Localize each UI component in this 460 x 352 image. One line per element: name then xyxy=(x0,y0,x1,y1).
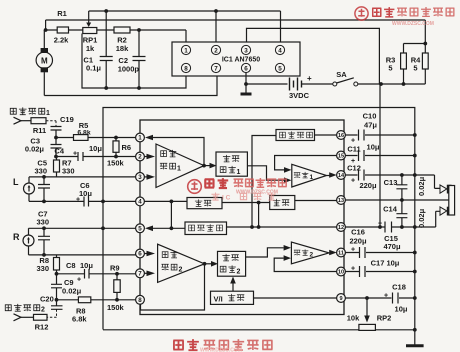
wire filter1 to filter2 xyxy=(222,202,270,204)
capacitor C13 0.02u xyxy=(396,175,407,200)
arrow V/I up into volume2 xyxy=(232,281,234,291)
svg-text:330: 330 xyxy=(36,264,49,273)
svg-text:+: + xyxy=(351,178,355,185)
volume control 2 box xyxy=(218,251,246,276)
capacitor C2 1000p xyxy=(133,30,146,88)
resistor R9 150k xyxy=(116,274,118,300)
vertical pin4-net to pin5 wire xyxy=(170,201,172,228)
resistor R8 330 xyxy=(56,255,58,274)
svg-text:0.02μ: 0.02μ xyxy=(417,176,426,196)
wire volume1 output down to driver1 lower input xyxy=(247,166,284,180)
resistor R6 150k xyxy=(115,138,117,157)
svg-text:C8: C8 xyxy=(66,261,76,270)
svg-text:+: + xyxy=(351,138,355,145)
svg-text:1: 1 xyxy=(237,169,241,176)
svg-text:7: 7 xyxy=(214,66,218,73)
svg-text:470μ: 470μ xyxy=(383,242,401,251)
wire L row bottom / C6 to pin4 xyxy=(29,200,136,202)
wire top rail y=11 (RP1 wiper to C1, pin2, pin4 of IC1) xyxy=(89,11,281,43)
input signal 1 label xyxy=(10,107,45,114)
ground under IC1 pin6 xyxy=(245,73,247,94)
pin 10 of AN7650 block xyxy=(337,267,346,276)
svg-text:+: + xyxy=(76,197,80,204)
wire preamp1 out to volume1 with arrow xyxy=(204,165,210,167)
capacitor C9 0.02u xyxy=(51,274,62,300)
svg-text:10μ: 10μ xyxy=(79,189,92,198)
svg-text:3VDC: 3VDC xyxy=(289,91,310,100)
wire ref box right to pin16 xyxy=(315,134,342,136)
svg-text:R6: R6 xyxy=(122,143,132,152)
svg-text:WWW.DZSC.COM: WWW.DZSC.COM xyxy=(200,348,242,352)
svg-text:9: 9 xyxy=(339,296,342,302)
IC1 pin 8 xyxy=(181,63,190,72)
svg-text:1k: 1k xyxy=(86,44,95,53)
IC1 AN7650 box xyxy=(172,42,300,76)
capacitor C11 10u on pin15 row xyxy=(345,150,414,161)
wire volume2 output up to driver2 upper input xyxy=(246,248,284,257)
resistor R2 18k xyxy=(114,27,130,33)
pin 16 of AN7650 block xyxy=(337,131,346,140)
driver2 output arrow to pin11 xyxy=(329,250,337,256)
capacitor C6 10u xyxy=(84,197,89,207)
capacitor C18 10u on pin9 row xyxy=(345,293,414,304)
svg-text:+: + xyxy=(307,74,312,83)
svg-text:2: 2 xyxy=(138,154,142,161)
svg-text:0.02μ: 0.02μ xyxy=(62,287,82,296)
svg-text:150k: 150k xyxy=(107,159,125,168)
svg-text:1: 1 xyxy=(177,166,181,173)
svg-text:L: L xyxy=(13,177,19,187)
pin 15 of AN7650 block xyxy=(337,151,346,160)
svg-text:330: 330 xyxy=(62,167,75,176)
arrow pin7 into preamp2 xyxy=(147,271,156,277)
battery 3VDC xyxy=(290,78,302,91)
svg-text:2: 2 xyxy=(214,48,218,55)
RP1 wiper arrow xyxy=(86,23,91,28)
svg-text:2: 2 xyxy=(41,307,45,314)
svg-text:C14: C14 xyxy=(383,205,398,214)
svg-text:C17 10μ: C17 10μ xyxy=(371,259,400,268)
svg-text:R9: R9 xyxy=(110,264,120,273)
wire base voltage right to pin 12 xyxy=(227,226,342,228)
svg-text:7: 7 xyxy=(138,271,142,278)
svg-text:+: + xyxy=(77,277,81,284)
svg-text:47μ: 47μ xyxy=(364,121,377,130)
input 1 arrow xyxy=(14,117,22,124)
RP2 arrow from pin9 wire xyxy=(366,298,368,317)
IC1 pin 2 xyxy=(211,45,220,54)
svg-text:C4: C4 xyxy=(54,147,64,156)
svg-text:C18: C18 xyxy=(392,283,406,292)
svg-text:5: 5 xyxy=(388,64,392,73)
svg-text:1: 1 xyxy=(310,174,314,181)
ground bottom right xyxy=(414,341,416,345)
svg-text:C16: C16 xyxy=(351,228,365,237)
pin 2 of AN7650 block xyxy=(136,152,145,161)
resistor R3 5 xyxy=(404,20,426,84)
V/I convert box xyxy=(211,291,254,304)
svg-text:1: 1 xyxy=(46,110,50,117)
capacitor C10 47u on pin16 row xyxy=(345,130,414,141)
wire pin13 row to jack common xyxy=(345,199,448,201)
svg-text:3: 3 xyxy=(138,174,142,181)
preamp 2 triangle xyxy=(158,244,205,282)
svg-text:2: 2 xyxy=(310,252,314,259)
watermark center text WeiKu xyxy=(205,178,229,188)
svg-text:+: + xyxy=(384,293,388,300)
IC1 pin 1 xyxy=(181,45,190,54)
potentiometer RP1 1k xyxy=(83,28,97,34)
pin 7 of AN7650 block xyxy=(136,269,145,278)
svg-text:C20: C20 xyxy=(40,295,54,304)
svg-text:8: 8 xyxy=(138,297,142,304)
junction dots internal xyxy=(170,164,261,266)
svg-text:10μ: 10μ xyxy=(80,261,93,270)
feedback wire preamp1 output to pin 1 xyxy=(152,138,204,166)
wire ref box left down to pin12 net xyxy=(252,136,276,228)
svg-text:+: + xyxy=(351,247,355,254)
wire V+ rail x=380 down to C15 xyxy=(379,84,381,227)
svg-text:3: 3 xyxy=(244,48,248,55)
watermark bottom xyxy=(173,339,199,350)
arrow pin2 into preamp1 xyxy=(147,154,156,160)
base voltage box xyxy=(185,222,227,235)
filter box 1 xyxy=(187,198,222,209)
svg-text:10μ: 10μ xyxy=(367,143,380,152)
svg-text:M: M xyxy=(41,57,48,66)
pin 14 of AN7650 block xyxy=(337,171,346,180)
pin 4 of AN7650 block xyxy=(136,197,145,206)
wire R row bottom to pin6 xyxy=(29,254,136,256)
wire pin4 to filter1 xyxy=(145,200,188,202)
junction dots input section xyxy=(42,136,119,302)
svg-text:220μ: 220μ xyxy=(349,237,367,246)
wire R row top to pin5 xyxy=(29,227,136,229)
svg-text:10: 10 xyxy=(338,270,344,276)
capacitor C1 0.1u xyxy=(100,11,113,88)
resistor R11 xyxy=(31,118,46,124)
arrow pin6 into preamp2 xyxy=(147,251,156,257)
svg-text:R: R xyxy=(13,232,20,242)
svg-text:330: 330 xyxy=(34,167,47,176)
svg-text:2.2k: 2.2k xyxy=(54,36,69,45)
svg-text:15: 15 xyxy=(338,154,344,160)
wire pin10 to driver2 lower input xyxy=(274,258,341,271)
svg-text:16: 16 xyxy=(338,133,344,139)
capacitor C14 0.02u xyxy=(396,200,407,227)
capacitor C12 220u on pin14 row xyxy=(345,170,440,189)
pin 8 of AN7650 block xyxy=(136,295,145,304)
pin 12 of AN7650 block xyxy=(337,223,346,232)
watermark center logo xyxy=(188,180,202,194)
wire ground to battery xyxy=(246,83,288,85)
svg-text:14: 14 xyxy=(338,173,345,179)
motor M xyxy=(36,30,52,96)
svg-text:1: 1 xyxy=(184,48,188,55)
driver1 output arrow to pin 14 xyxy=(327,175,331,177)
capacitor C20 xyxy=(51,300,63,310)
input signal 2 label xyxy=(5,304,40,311)
wire y=30 R1/RP1/R2 row to IC1 pin1 xyxy=(46,30,186,44)
IC1 pin 6 xyxy=(241,63,250,72)
arrow pin3 into preamp1 xyxy=(147,174,156,180)
dashed wire C20 to R12 xyxy=(47,309,57,317)
svg-text:10μ: 10μ xyxy=(395,305,408,314)
IC1 pin 4 xyxy=(275,45,284,54)
pin 1 of AN7650 block xyxy=(136,133,145,142)
svg-text:+: + xyxy=(73,151,77,158)
earphone jack channel 1 xyxy=(440,185,447,193)
wire supply y=20 (motor node to R4) xyxy=(46,20,426,30)
capacitor C17 10u on pin10 row xyxy=(345,266,414,277)
svg-text:IC1 AN7650: IC1 AN7650 xyxy=(222,57,260,64)
capacitor C3 0.02u xyxy=(51,138,62,157)
svg-text:220μ: 220μ xyxy=(359,181,377,190)
capacitor C19 xyxy=(51,127,62,138)
wire V/I to pin9 xyxy=(254,297,342,299)
resistor R7 330 xyxy=(56,157,58,177)
IC1 pin 7 xyxy=(211,63,220,72)
svg-text:150k: 150k xyxy=(107,303,125,312)
svg-text:10μ: 10μ xyxy=(89,144,102,153)
svg-text:6.8k: 6.8k xyxy=(77,130,90,137)
svg-text:SA: SA xyxy=(336,70,347,79)
IC internal block box xyxy=(140,120,344,315)
svg-text:13: 13 xyxy=(338,198,344,204)
wire bias bus y=107.5 with left rail x=103 and right rail x=414.8 xyxy=(103,108,415,342)
junction dots top section xyxy=(44,9,428,90)
svg-text:6: 6 xyxy=(244,66,248,73)
IC1 pin 5 xyxy=(275,63,284,72)
wire RP2 bus y=330 xyxy=(103,329,415,331)
svg-text:5: 5 xyxy=(413,64,417,73)
input 2 arrow xyxy=(14,314,22,321)
svg-text:R12: R12 xyxy=(35,323,49,332)
svg-text:0.1μ: 0.1μ xyxy=(86,64,101,73)
svg-text:4: 4 xyxy=(278,48,282,55)
junction dots right section xyxy=(365,133,417,332)
svg-text:2: 2 xyxy=(179,267,183,274)
resistor R12 xyxy=(34,314,48,320)
svg-text:18k: 18k xyxy=(116,44,129,53)
driver 2 triangle xyxy=(291,242,329,264)
svg-text:1: 1 xyxy=(138,135,142,142)
earphone jack channel 2 xyxy=(440,207,447,215)
svg-text:8: 8 xyxy=(184,66,188,73)
svg-text:RP2: RP2 xyxy=(377,314,392,323)
svg-text:+: + xyxy=(351,266,355,273)
resistor R4 5 xyxy=(422,53,428,69)
volume control 1 box xyxy=(216,152,247,176)
svg-text:C13: C13 xyxy=(384,178,398,187)
arrow into pin1 xyxy=(145,135,153,141)
watermark top right text xyxy=(372,7,394,17)
svg-text:2: 2 xyxy=(237,269,241,276)
wire filter2 to pin13 xyxy=(295,200,341,202)
pin 3 of AN7650 block xyxy=(136,173,145,182)
earphone plug body xyxy=(449,186,455,216)
vertical filter wire to base voltage net xyxy=(258,203,260,228)
capacitor C8 10u xyxy=(57,269,136,279)
potentiometer RP2 10k xyxy=(359,324,376,330)
dashed wire to C19 xyxy=(46,121,56,127)
filter box 2 xyxy=(270,196,295,210)
wire preamp2 out to volume2 with arrow xyxy=(205,263,212,265)
pin 13 of AN7650 block xyxy=(337,196,346,205)
resistor R8 6.8k xyxy=(78,297,90,303)
capacitor C4 10u xyxy=(56,152,136,161)
svg-text:1000p: 1000p xyxy=(118,65,140,74)
capacitor C16 220u on pin11 row xyxy=(345,247,414,258)
driver 1 triangle xyxy=(292,164,327,187)
wire motor bottom to IC1 pin7 xyxy=(44,73,217,95)
watermark top right logo xyxy=(355,7,368,20)
svg-text:6.8k: 6.8k xyxy=(72,315,87,324)
svg-text:6: 6 xyxy=(138,251,142,258)
svg-text:R1: R1 xyxy=(57,9,67,18)
svg-text:0.02μ: 0.02μ xyxy=(417,208,426,228)
pin 5 of AN7650 block xyxy=(136,224,145,233)
resistor R5 6.8k xyxy=(56,137,136,139)
svg-text:11: 11 xyxy=(338,251,344,257)
svg-text:C10: C10 xyxy=(363,112,377,121)
wire pin15 to driver1 upper input xyxy=(275,156,341,170)
wire L row top to big box pin3 xyxy=(29,176,136,178)
pin 11 of AN7650 block xyxy=(337,248,346,257)
capacitor C15 470u on pin12 row xyxy=(345,211,440,232)
svg-text:I C: I C xyxy=(222,195,231,202)
wire IC1 pin3 net to right rail xyxy=(247,28,380,84)
feedback preamp2 output to pin8 xyxy=(141,264,205,310)
preamp 1 op-amp triangle xyxy=(156,144,204,188)
IC1 pin 3 xyxy=(241,45,250,54)
svg-text:C19: C19 xyxy=(60,115,74,124)
svg-text:C12: C12 xyxy=(347,164,361,173)
svg-text:5: 5 xyxy=(138,226,142,233)
svg-text:0.02μ: 0.02μ xyxy=(25,145,45,154)
svg-text:4: 4 xyxy=(138,199,142,206)
svg-text:R11: R11 xyxy=(33,126,46,135)
svg-text:10k: 10k xyxy=(347,314,360,323)
wire RP1 left leg down to C1/C2 bottom bus and IC1 pin8 xyxy=(82,34,186,89)
svg-text:12: 12 xyxy=(338,225,344,231)
svg-text:330: 330 xyxy=(37,218,50,227)
svg-text:WWW.DZSC.COM: WWW.DZSC.COM xyxy=(392,21,434,27)
wire C9 bottom node to pin8 through R8 6.8k xyxy=(57,299,136,301)
wire base voltage to pin5 with arrow xyxy=(152,227,185,229)
svg-text:C11: C11 xyxy=(347,145,360,154)
reference voltage box xyxy=(276,130,315,141)
pin 6 of AN7650 block xyxy=(136,249,145,258)
pin 9 of AN7650 block xyxy=(337,294,346,303)
resistor R1 2.2k xyxy=(57,27,68,33)
svg-text:5: 5 xyxy=(278,66,282,73)
svg-text:V/I: V/I xyxy=(214,295,223,304)
